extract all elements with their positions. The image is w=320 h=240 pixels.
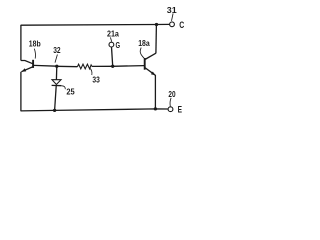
- svg-text:18b: 18b: [29, 39, 41, 49]
- wire left rail upper: [20, 25, 22, 61]
- junction node 32: [55, 65, 58, 68]
- leader 32: [55, 55, 57, 63]
- transistor Q 18a base bar: [144, 58, 146, 70]
- wire diode upper: [55, 66, 57, 80]
- svg-text:18a: 18a: [138, 38, 150, 48]
- wire top rail C: [21, 23, 170, 26]
- terminal 31 C circle: [170, 22, 175, 27]
- svg-text:33: 33: [92, 74, 100, 84]
- terminal 20 E circle: [168, 107, 173, 112]
- transistor Q 18a collector lead: [145, 53, 156, 59]
- svg-text:G: G: [116, 40, 121, 50]
- wire bottom rail E: [21, 109, 168, 111]
- leader 18a: [140, 48, 144, 59]
- diode D25 triangle: [52, 80, 61, 85]
- leader 25: [62, 86, 66, 89]
- wire gate right segment: [92, 65, 144, 68]
- leader 33: [90, 68, 92, 75]
- wire left rail lower: [20, 72, 22, 112]
- diode D25 cathode bar: [52, 84, 62, 86]
- svg-text:31: 31: [167, 5, 177, 15]
- wire diode lower: [55, 86, 57, 110]
- svg-text:25: 25: [66, 87, 75, 97]
- junction node bottom diode: [53, 109, 56, 112]
- resistor R33 lead left: [57, 65, 78, 67]
- svg-text:21a: 21a: [107, 29, 119, 39]
- junction node G: [111, 65, 114, 68]
- wire gate left segment: [34, 64, 57, 67]
- junction node top C: [155, 23, 158, 26]
- svg-text:32: 32: [53, 45, 61, 55]
- wire gate terminal drop: [112, 47, 113, 66]
- transistor Q 18b collector lead: [21, 61, 33, 64]
- transistor Q 18b emitter lead: [21, 67, 33, 72]
- arrow emitter 18a: [151, 72, 156, 76]
- terminal 21a G circle: [109, 42, 114, 47]
- leader 20: [170, 98, 171, 107]
- resistor R33 zigzag: [77, 64, 92, 69]
- wire right rail lower: [154, 75, 156, 109]
- svg-text:20: 20: [168, 89, 175, 99]
- leader 18b: [34, 49, 35, 59]
- leader 21a: [110, 37, 111, 41]
- leader 31: [172, 13, 174, 21]
- wire right rail upper: [155, 25, 158, 54]
- svg-text:E: E: [178, 105, 182, 115]
- svg-text:C: C: [179, 20, 185, 30]
- arrow emitter 18b: [21, 68, 26, 71]
- transistor Q 18a emitter lead: [145, 68, 155, 76]
- junction node bottom E: [154, 107, 157, 110]
- transistor Q 18b base bar: [32, 60, 34, 68]
